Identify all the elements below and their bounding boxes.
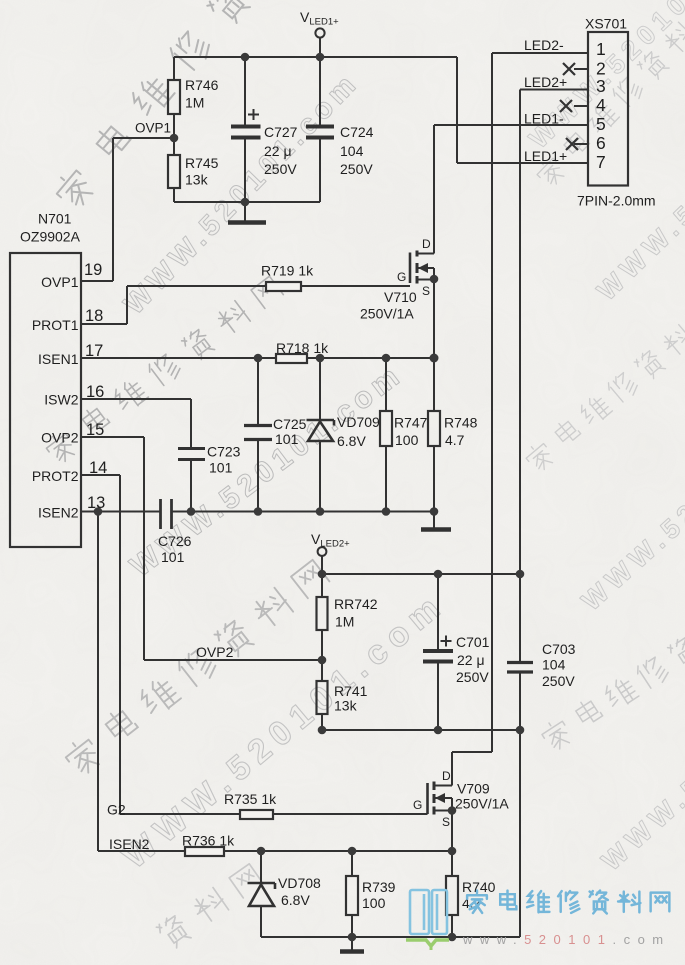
svg-text:18: 18 xyxy=(85,307,103,325)
svg-text:1M: 1M xyxy=(335,614,354,630)
svg-text:C723: C723 xyxy=(207,444,241,460)
svg-text:6: 6 xyxy=(596,133,606,153)
svg-text:16: 16 xyxy=(86,383,104,401)
svg-text:R736 1k: R736 1k xyxy=(182,833,235,849)
svg-text:C727: C727 xyxy=(264,124,298,140)
svg-text:C725: C725 xyxy=(273,416,307,432)
svg-text:15: 15 xyxy=(86,421,104,439)
svg-text:ISEN1: ISEN1 xyxy=(38,351,79,367)
svg-text:101: 101 xyxy=(275,431,299,447)
svg-text:13: 13 xyxy=(87,494,105,512)
svg-text:OVP1: OVP1 xyxy=(135,121,171,136)
svg-text:VD708: VD708 xyxy=(278,875,321,891)
svg-text:13k: 13k xyxy=(185,172,209,188)
svg-text:C701: C701 xyxy=(456,634,490,650)
svg-text:250V/1A: 250V/1A xyxy=(360,306,414,322)
svg-text:D: D xyxy=(422,237,431,251)
svg-text:1M: 1M xyxy=(185,95,204,111)
svg-text:7PIN-2.0mm: 7PIN-2.0mm xyxy=(577,193,656,209)
svg-text:13k: 13k xyxy=(334,698,358,714)
svg-text:250V: 250V xyxy=(456,669,489,685)
svg-text:D: D xyxy=(442,769,451,783)
svg-text:S: S xyxy=(422,284,430,298)
svg-text:14: 14 xyxy=(89,459,107,477)
svg-text:C726: C726 xyxy=(158,533,192,549)
svg-text:104: 104 xyxy=(542,657,566,673)
svg-text:ISW2: ISW2 xyxy=(44,392,78,408)
svg-text:OVP2: OVP2 xyxy=(196,644,234,660)
svg-text:6.8V: 6.8V xyxy=(337,433,366,449)
svg-text:G: G xyxy=(413,798,422,812)
svg-text:N701: N701 xyxy=(38,211,72,227)
svg-text:OVP2: OVP2 xyxy=(41,430,79,446)
svg-text:R740: R740 xyxy=(462,879,496,895)
svg-text:104: 104 xyxy=(340,143,364,159)
svg-text:3: 3 xyxy=(596,76,606,96)
svg-text:LED2-: LED2- xyxy=(524,37,564,53)
svg-text:OZ9902A: OZ9902A xyxy=(20,229,81,245)
svg-text:PROT1: PROT1 xyxy=(32,317,79,333)
svg-text:250V: 250V xyxy=(264,161,297,177)
svg-text:4.7: 4.7 xyxy=(445,432,465,448)
svg-text:1: 1 xyxy=(596,39,606,59)
svg-text:ISEN2: ISEN2 xyxy=(109,836,150,852)
svg-text:100: 100 xyxy=(362,895,386,911)
svg-text:VD709: VD709 xyxy=(337,414,380,430)
svg-text:R745: R745 xyxy=(185,155,219,171)
svg-text:R746: R746 xyxy=(185,77,219,93)
svg-text:22 μ: 22 μ xyxy=(457,652,485,668)
svg-text:7: 7 xyxy=(596,152,606,172)
svg-text:R739: R739 xyxy=(362,879,396,895)
svg-text:5: 5 xyxy=(596,114,606,134)
svg-text:250V/1A: 250V/1A xyxy=(455,796,509,812)
svg-text:R748: R748 xyxy=(444,415,478,431)
svg-text:C724: C724 xyxy=(340,124,374,140)
svg-text:V709: V709 xyxy=(457,781,490,797)
svg-text:4: 4 xyxy=(596,95,606,115)
svg-text:101: 101 xyxy=(209,460,233,476)
svg-text:www.520101.com: www.520101.com xyxy=(462,932,671,947)
svg-text:17: 17 xyxy=(85,342,103,360)
svg-text:C703: C703 xyxy=(542,641,576,657)
svg-text:R735 1k: R735 1k xyxy=(224,791,277,807)
svg-text:22 μ: 22 μ xyxy=(264,143,292,159)
svg-text:PROT2: PROT2 xyxy=(32,468,79,484)
svg-text:LED1-: LED1- xyxy=(524,111,564,127)
svg-text:LED1+: LED1+ xyxy=(524,148,567,164)
svg-text:G: G xyxy=(397,270,406,284)
svg-text:V710: V710 xyxy=(384,289,417,305)
svg-text:XS701: XS701 xyxy=(585,16,627,32)
svg-text:OVP1: OVP1 xyxy=(41,274,79,290)
svg-text:101: 101 xyxy=(161,549,185,565)
svg-text:LED2+: LED2+ xyxy=(524,74,567,90)
svg-text:R718 1k: R718 1k xyxy=(276,340,329,356)
svg-text:250V: 250V xyxy=(542,673,575,689)
svg-text:6.8V: 6.8V xyxy=(281,892,310,908)
svg-text:S: S xyxy=(442,815,450,829)
svg-text:R747: R747 xyxy=(394,415,428,431)
svg-text:RR742: RR742 xyxy=(334,596,378,612)
svg-text:G2: G2 xyxy=(107,802,126,818)
svg-text:100: 100 xyxy=(395,432,419,448)
svg-text:19: 19 xyxy=(84,261,102,279)
svg-text:R719 1k: R719 1k xyxy=(261,263,314,279)
svg-text:250V: 250V xyxy=(340,161,373,177)
svg-text:ISEN2: ISEN2 xyxy=(38,505,79,521)
